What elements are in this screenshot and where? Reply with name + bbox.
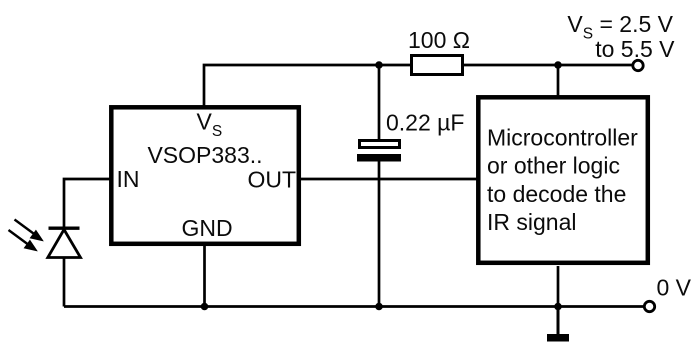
svg-text:100 Ω: 100 Ω (408, 27, 470, 53)
junction: ground rail / capacitor (375, 303, 383, 311)
IC U1 VSOP383 receiver box (111, 107, 298, 244)
wire: supply rail right segment to Vs terminal (463, 64, 633, 67)
terminal: 0 V (644, 301, 654, 311)
junction: ground rail / U1 GND (201, 303, 209, 311)
terminal: Vs supply (633, 60, 643, 70)
capacitor C1 (357, 141, 401, 162)
wire: microcontroller supply branch (557, 65, 560, 98)
wire: U1 IN to photodiode cathode (64, 179, 111, 227)
wire: ground rail (64, 305, 644, 308)
svg-text:to 5.5 V: to 5.5 V (595, 36, 675, 62)
junction: supply rail / capacitor (375, 61, 383, 69)
wire: U1 Vs riser and supply rail left segment (204, 65, 411, 107)
junction: supply rail / microcontroller (554, 61, 562, 69)
resistor R1 (412, 56, 463, 75)
wire: microcontroller ground down to rail (557, 266, 560, 307)
svg-text:Microcontroller: Microcontroller (487, 125, 638, 151)
wire: ground symbol stub (557, 307, 560, 335)
svg-text:VSOP383..: VSOP383.. (147, 142, 262, 168)
svg-text:to decode the: to decode the (487, 181, 626, 207)
svg-text:or other logic: or other logic (487, 153, 620, 179)
wire: capacitor top branch from supply rail (378, 65, 381, 141)
wire: photodiode anode down to ground rail (63, 257, 66, 307)
junction: ground rail / microcontroller ground (554, 303, 562, 311)
svg-text:GND: GND (181, 215, 232, 241)
svg-text:OUT: OUT (247, 167, 296, 193)
wire: U1 GND pin down to ground rail (203, 245, 206, 307)
ground symbol (547, 334, 569, 342)
wire: capacitor bottom to ground rail (crosses OUT line) (378, 159, 381, 307)
IR light arrows into photodiode (9, 220, 43, 251)
microcontroller box U2 (478, 97, 648, 262)
photodiode D1 (48, 228, 81, 257)
wire: U1 OUT to microcontroller (299, 178, 478, 181)
svg-text:0 V: 0 V (657, 275, 692, 301)
svg-text:0.22 µF: 0.22 µF (386, 110, 464, 136)
svg-text:IR signal: IR signal (487, 209, 576, 235)
svg-text:IN: IN (117, 166, 140, 192)
